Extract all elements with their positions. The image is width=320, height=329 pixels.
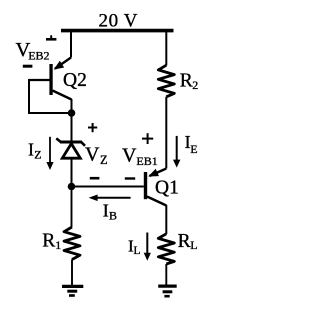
svg-text:R: R (180, 71, 193, 92)
svg-text:EB1: EB1 (136, 154, 157, 168)
wire (165, 97, 167, 169)
wire (70, 30, 72, 58)
label IE (185, 132, 198, 156)
label plus VEB2 (46, 35, 56, 39)
label VEB1 (122, 145, 158, 168)
wire (165, 29, 167, 66)
current arrow IE (173, 136, 180, 168)
label minus VEB2 (23, 65, 33, 68)
wire (165, 264, 167, 285)
wire (71, 260, 73, 286)
current arrow IL (144, 233, 151, 261)
label VZ (85, 144, 108, 167)
wire (72, 186, 144, 188)
wire (165, 205, 167, 234)
svg-text:Z: Z (100, 153, 108, 167)
svg-text:I: I (28, 140, 34, 160)
transistor Q2 (29, 58, 72, 100)
junction node A (68, 109, 76, 117)
ground (158, 286, 177, 296)
resistor R1 (64, 227, 80, 260)
supply rail 20 V (61, 29, 174, 33)
svg-text:V: V (85, 144, 100, 166)
label IZ (28, 140, 42, 162)
wire (71, 113, 73, 141)
label VEB2 (16, 39, 50, 63)
svg-text:L: L (190, 238, 197, 252)
resistor RL (158, 234, 174, 264)
svg-text:E: E (190, 142, 197, 156)
svg-text:R: R (42, 231, 55, 252)
label plus VZ (88, 123, 97, 132)
svg-text:I: I (103, 201, 109, 221)
label R1 (42, 231, 61, 253)
wire (71, 187, 73, 228)
label minus VEB1 (125, 177, 135, 179)
junction node B (68, 183, 76, 191)
ground (62, 286, 83, 295)
current arrow IZ (46, 137, 53, 170)
label IB (103, 201, 117, 223)
svg-text:Q2: Q2 (63, 70, 87, 91)
label plus VEB1 (142, 133, 153, 144)
svg-text:R: R (178, 231, 191, 252)
svg-text:20 V: 20 V (99, 11, 139, 32)
svg-text:EB2: EB2 (28, 49, 49, 63)
resistor R2 (158, 65, 174, 97)
transistor Q1 (144, 169, 167, 206)
label RL (178, 231, 198, 252)
zener diode VZ (56, 138, 85, 158)
label minus VZ (90, 177, 100, 180)
svg-text:V: V (122, 145, 137, 167)
wire (28, 79, 72, 113)
label R2 (180, 71, 199, 92)
svg-text:1: 1 (55, 238, 61, 252)
svg-text:Q1: Q1 (155, 178, 179, 199)
svg-text:Z: Z (34, 148, 41, 162)
svg-text:B: B (109, 209, 117, 223)
svg-text:L: L (134, 245, 141, 257)
wire (71, 99, 73, 113)
label IL (128, 236, 141, 257)
current arrow IB (89, 195, 131, 202)
wire (71, 160, 73, 187)
svg-text:2: 2 (192, 78, 198, 92)
